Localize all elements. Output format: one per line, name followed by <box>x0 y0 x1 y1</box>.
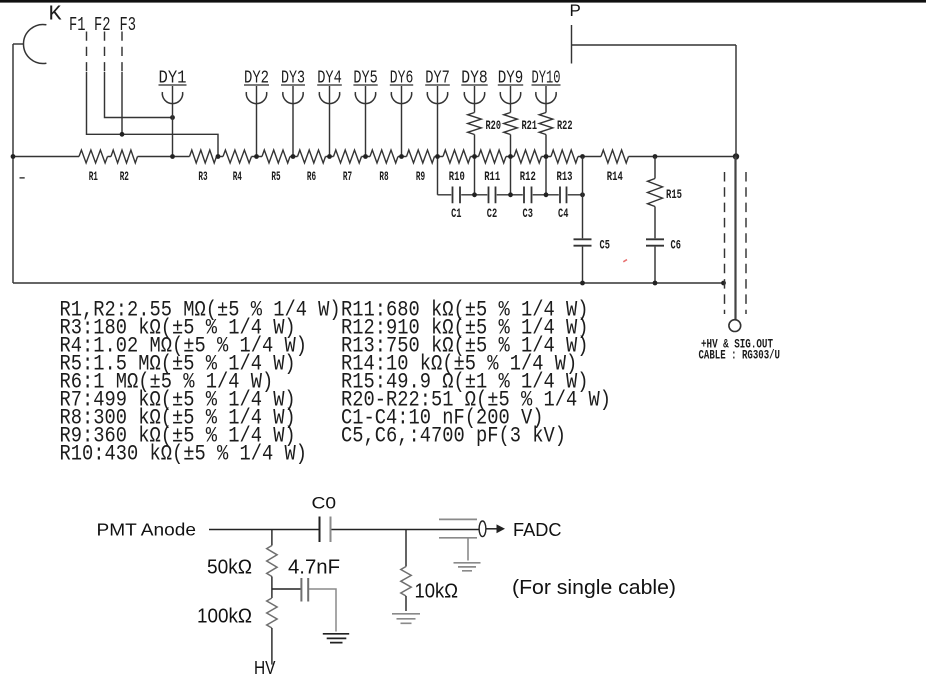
svg-text:R3: R3 <box>198 170 207 184</box>
F1 wire down and across to bus node <box>87 72 219 157</box>
resistor 10k <box>401 567 411 597</box>
svg-text:P: P <box>570 1 581 20</box>
coax end ellipse <box>479 521 486 537</box>
bottom rail wire <box>13 282 724 284</box>
svg-text:R5: R5 <box>271 170 280 184</box>
capacitor C4 <box>560 187 567 204</box>
resistor R20 (dynode leg) <box>468 113 482 135</box>
dynode DY8 leg wire <box>474 86 476 113</box>
dynode DY10 leg wire <box>545 86 547 113</box>
capacitor chain wire <box>438 194 583 196</box>
wire 10k to ground <box>405 596 407 611</box>
resistor R5 <box>262 150 290 163</box>
svg-text:4.7nF: 4.7nF <box>288 556 340 579</box>
dynode DY3 leg wire <box>292 86 294 157</box>
capacitor C1 <box>453 187 461 204</box>
50k/100k branch wire <box>271 530 273 546</box>
capacitor C5 <box>574 239 592 245</box>
dynode DY6 arc symbol <box>391 92 411 104</box>
component value list <box>60 298 612 467</box>
coax shield top line <box>439 518 477 520</box>
dynode DY2 leg wire <box>256 86 258 157</box>
wire cathode to left rail <box>13 43 23 45</box>
bottom rail junction dots <box>580 281 585 286</box>
capacitor C0 <box>319 517 321 543</box>
svg-text:50kΩ: 50kΩ <box>207 556 252 579</box>
svg-text:K: K <box>49 4 62 27</box>
cap chain junction dots <box>472 192 477 197</box>
capacitor C3 <box>524 187 532 204</box>
coax shield ground drop <box>467 538 469 561</box>
resistor R9 <box>407 150 435 163</box>
cable end terminal circle <box>729 320 741 332</box>
dynode DY7 arc symbol <box>427 92 447 104</box>
resistor R12 <box>514 150 542 163</box>
svg-text:FADC: FADC <box>513 520 562 540</box>
capacitor 4.7nF <box>300 578 302 602</box>
left rail wire <box>12 44 14 283</box>
dynode DY9 arc symbol <box>500 92 520 104</box>
main bus wire segments <box>13 156 736 158</box>
photocathode K arc <box>23 25 46 64</box>
ground for 4.7nF <box>323 634 349 643</box>
resistor R13 <box>551 150 578 163</box>
svg-text:C4: C4 <box>558 207 569 221</box>
svg-text:C6: C6 <box>671 238 681 252</box>
svg-text:R9: R9 <box>416 170 425 184</box>
dynode DY6 leg wire <box>401 86 403 157</box>
svg-text:R22: R22 <box>557 119 573 133</box>
wire bus to C5 <box>582 157 584 239</box>
bus junction dots <box>11 154 16 159</box>
resistor 50k <box>267 546 277 577</box>
FADC arrow <box>486 528 497 530</box>
capacitor C2 <box>489 187 496 204</box>
svg-text:HV: HV <box>254 658 276 678</box>
resistor R11 <box>479 150 507 163</box>
wire 50k to node <box>271 577 273 599</box>
svg-text:R7: R7 <box>343 170 352 184</box>
cable shield dashed left <box>724 172 726 314</box>
dynode DY5 arc symbol <box>355 92 375 104</box>
svg-text:R13: R13 <box>557 170 573 184</box>
wire C5 to bottom rail <box>582 247 584 283</box>
resistor R22 (dynode leg) <box>539 113 553 135</box>
wire C0 to coax <box>332 529 480 531</box>
svg-text:PMT Anode: PMT Anode <box>97 520 197 540</box>
anode bus junction dot <box>733 153 739 159</box>
svg-text:R10:430 kΩ(±5 % 1/4 W): R10:430 kΩ(±5 % 1/4 W) <box>60 442 308 467</box>
svg-text:C5: C5 <box>600 238 610 252</box>
top border line <box>0 0 926 3</box>
dynode DY10 arc symbol <box>536 92 556 104</box>
F2 wire down and across to DY1 leg <box>105 72 173 118</box>
svg-text:R21: R21 <box>522 119 538 133</box>
anode wire to cable <box>572 45 737 157</box>
resistor 100k <box>267 598 277 628</box>
svg-text:C1: C1 <box>451 207 462 221</box>
dynode DY1 arc symbol <box>162 92 182 104</box>
ground for coax shield <box>454 563 481 571</box>
wire 4.7nF to ground <box>309 589 336 632</box>
dynode DY4 arc symbol <box>319 92 339 104</box>
small red mark <box>623 260 627 262</box>
svg-text:(For single cable): (For single cable) <box>512 576 676 599</box>
svg-text:10kΩ: 10kΩ <box>415 580 459 603</box>
svg-text:C2: C2 <box>487 207 497 221</box>
F1 dashed lead <box>86 32 88 73</box>
F2 dashed lead <box>104 32 106 73</box>
resistor R4 <box>223 150 252 163</box>
svg-text:R8: R8 <box>379 170 388 184</box>
dynode DY1 leg wire <box>172 86 174 157</box>
wire 100k to HV <box>271 628 273 665</box>
svg-text:R10: R10 <box>449 170 465 184</box>
resistor R3 <box>190 150 217 163</box>
negative polarity mark <box>20 177 25 179</box>
junction F2-DY1 <box>170 115 175 120</box>
F3 dashed lead <box>121 32 123 73</box>
junction F3-F1 line <box>120 132 125 137</box>
resistor R1 <box>79 150 108 163</box>
dynode DY4 leg wire <box>329 86 331 157</box>
resistor R10 <box>443 150 471 163</box>
F3 wire down to F1 line <box>121 72 123 134</box>
anode input wire <box>209 529 319 531</box>
svg-text:F1: F1 <box>69 14 86 36</box>
resistor R8 <box>370 150 398 163</box>
10k branch wire <box>405 530 407 567</box>
svg-text:R4: R4 <box>233 170 242 184</box>
svg-text:R20: R20 <box>486 119 502 133</box>
ground for 10k <box>392 614 420 624</box>
svg-text:R11: R11 <box>484 170 500 184</box>
node to 4.7nF wire <box>272 588 301 590</box>
resistor R2 <box>111 150 138 163</box>
cable center conductor <box>734 157 736 320</box>
coax shield bottom line <box>439 537 477 539</box>
resistor R6 <box>298 150 326 163</box>
svg-text:R12: R12 <box>520 170 536 184</box>
svg-text:C3: C3 <box>523 207 533 221</box>
resistor R7 <box>334 150 362 163</box>
svg-text:R2: R2 <box>120 170 129 184</box>
capacitor C6 <box>646 239 664 245</box>
svg-text:F2: F2 <box>94 14 111 36</box>
dynode DY8 arc symbol <box>464 92 484 104</box>
dynode DY5 leg wire <box>365 86 367 157</box>
svg-text:CABLE : RG303/U: CABLE : RG303/U <box>699 348 781 362</box>
svg-text:C0: C0 <box>312 494 337 513</box>
dynode DY7 leg wire <box>437 86 439 195</box>
svg-text:C5,C6,:4700 pF(3 kV): C5,C6,:4700 pF(3 kV) <box>341 424 566 449</box>
dynode DY3 arc symbol <box>283 92 303 104</box>
cable shield dashed right <box>745 172 747 314</box>
dynode DY2 arc symbol <box>246 92 266 104</box>
svg-text:R1: R1 <box>89 170 98 184</box>
resistor R15 <box>648 179 663 207</box>
anode P pin wire <box>571 25 573 64</box>
resistor R21 (dynode leg) <box>504 113 518 135</box>
svg-text:R6: R6 <box>307 170 316 184</box>
dynode DY9 leg wire <box>510 86 512 113</box>
svg-text:100kΩ: 100kΩ <box>197 605 252 628</box>
resistor R14 <box>601 150 629 163</box>
wire C6 to bottom rail <box>654 247 656 283</box>
svg-text:R14: R14 <box>607 170 623 184</box>
svg-text:R15: R15 <box>666 188 682 202</box>
wire bus to R15 <box>654 157 656 179</box>
wire R15 to C6 <box>654 207 656 239</box>
